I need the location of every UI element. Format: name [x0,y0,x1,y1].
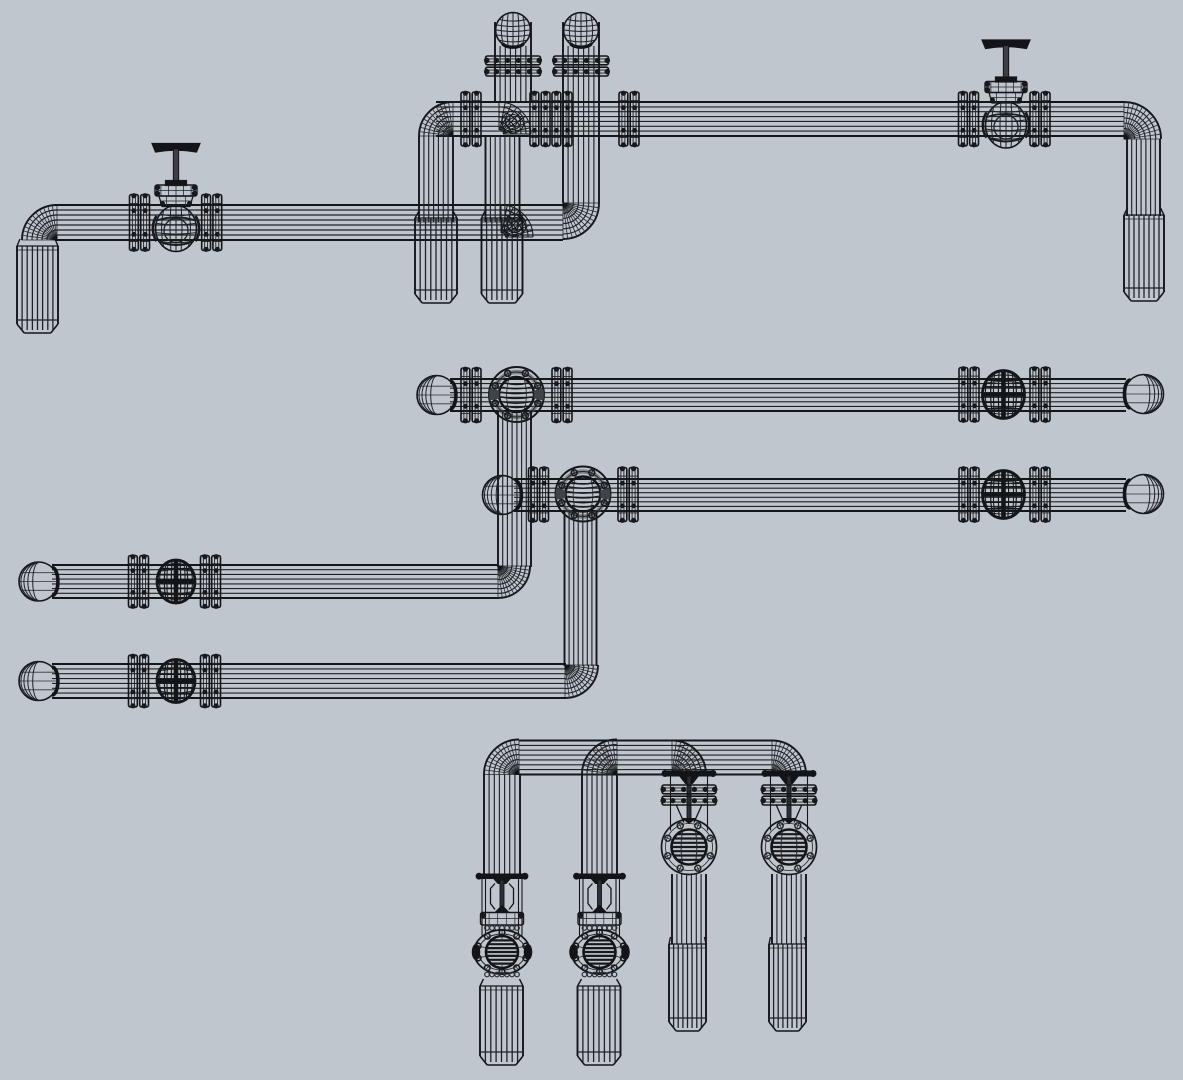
pipe run R2 [514,479,1126,511]
flange pair B-top [484,56,541,76]
flange pair R3-a [129,555,149,609]
flange pair R2-b [618,467,638,523]
ball valve V3 [982,370,1025,419]
vertical pipe A-up [563,22,599,203]
elbow A2 (turn up) [563,203,599,239]
pipe run R1 [450,379,1126,411]
flange pair C2 [530,91,550,147]
flange pair A-top [552,56,609,76]
flange pair R2-a [529,467,549,523]
dome cap R3-left [19,562,58,601]
flange pair A-left [130,194,150,252]
end coupling E (right) [1124,208,1164,301]
tee T1 with bolted face flange [489,367,544,422]
dome cap B (top) [496,13,531,48]
end coupling L1 [480,979,523,1065]
dome cap A (top) [564,13,599,48]
globe valve V1 with handwheel [152,144,200,252]
vertical pipe L2 [582,774,617,874]
elbow B3 [672,741,706,775]
vertical pipe L1 [484,774,520,874]
end coupling D [482,211,523,303]
flange pair R4-b [201,654,221,708]
elbow B2 [582,740,617,775]
pipe run A horizontal [55,205,563,240]
ball valve V6 [157,659,196,703]
end coupling L2 [578,979,621,1065]
dome cap R1-left [417,376,456,415]
vertical pipe M1 [498,411,531,567]
elbow B face (toward viewer) [499,102,531,134]
pipe run R4 [52,664,566,698]
elbow D face (toward viewer) [501,205,533,237]
flange pair R2-c [959,467,979,523]
end coupling A (bottom-left cap) [17,239,58,333]
flange pair C3 [552,91,572,147]
elbow M2 (turn up) [565,665,598,698]
pipe run B horizontal band [519,741,772,775]
flange pair A-right [202,194,222,252]
tee T2 with bolted face flange [556,467,611,522]
elbow C1 (turn down left end) [419,102,453,136]
ball valve V5 [157,560,196,604]
dome cap R2-left [483,476,522,515]
flange pair R4-a [129,654,149,708]
flange pair C1 [461,91,481,147]
pipe run R3 [52,565,498,598]
ball valve V4 [982,470,1025,519]
flange pair R2-d [1030,467,1050,523]
vertical pipe M2 [565,511,597,666]
globe valve V2 with handwheel [982,40,1030,148]
gate valve V9 (handwheel side view) [661,771,717,875]
vertical pipe D [486,136,520,222]
vertical pipe C [419,136,453,222]
elbow B1 [484,740,519,775]
vertical pipe L4 [772,874,806,944]
dome cap R2-right [1125,475,1164,514]
vertical pipe B [495,22,531,102]
pipe run C horizontal [436,102,1124,136]
vertical pipe C-right [1127,139,1160,216]
elbow B4 [772,741,806,775]
flange pair C4 [619,91,639,147]
flange pair R1-b [552,367,572,423]
gate valve V7 (handwheel side view) [472,873,532,977]
end coupling L3 [669,937,706,1031]
flange pair R3-b [201,555,221,609]
elbow M1 (turn up) [498,566,530,598]
flange pair C5-left of valve [959,91,979,147]
flange pair R1-a [461,367,481,423]
flange pair R1-d [1030,367,1050,423]
dome cap R4-left [19,662,58,701]
elbow C2 (turn down right end) [1124,102,1161,139]
dome cap R1-right [1125,375,1164,414]
gate valve V8 (handwheel side view) [570,873,630,977]
end coupling C [415,211,457,303]
flange pair C6-right of valve [1030,91,1050,147]
flange pair R1-c [959,367,979,423]
elbow A1 (top-left) [22,205,57,240]
end coupling L4 [769,937,806,1031]
gate valve V10 (handwheel side view) [761,771,817,875]
vertical pipe L3 [672,874,706,944]
